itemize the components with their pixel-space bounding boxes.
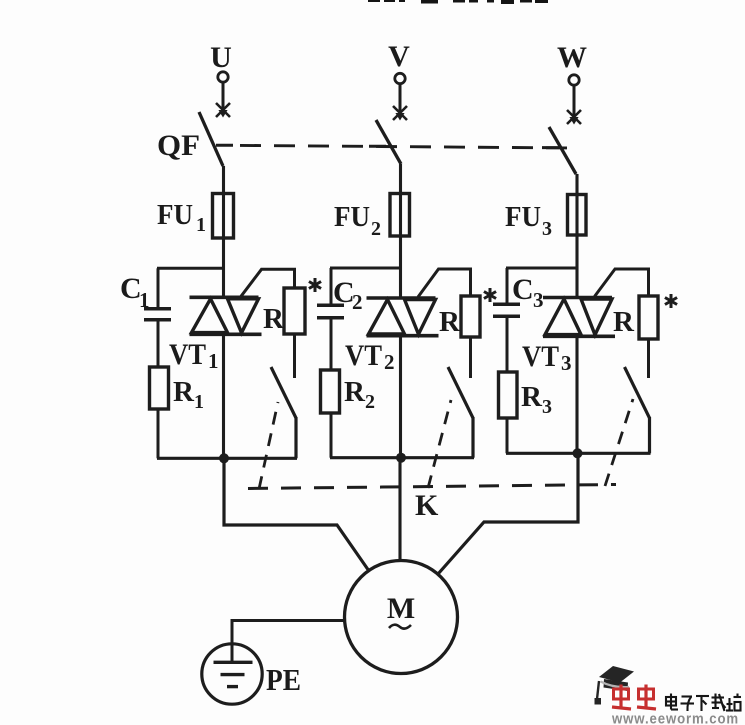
svg-text:1: 1 — [139, 288, 150, 312]
svg-text:FU: FU — [505, 201, 541, 233]
svg-text:FU: FU — [157, 199, 193, 231]
svg-text:2: 2 — [384, 350, 395, 374]
svg-text:3: 3 — [561, 351, 572, 375]
svg-text:FU: FU — [334, 201, 370, 233]
svg-text:R: R — [263, 303, 285, 335]
svg-text:2: 2 — [365, 391, 375, 413]
svg-text:VT: VT — [169, 338, 206, 371]
svg-text:3: 3 — [542, 218, 552, 240]
svg-text:www.eeworm.com: www.eeworm.com — [611, 711, 739, 725]
svg-text:QF: QF — [157, 129, 200, 162]
svg-text:3: 3 — [533, 288, 544, 312]
svg-text:U: U — [210, 41, 232, 74]
svg-text:M: M — [387, 592, 415, 625]
svg-text:K: K — [415, 489, 439, 522]
svg-text:R: R — [439, 306, 461, 338]
svg-text:VT: VT — [522, 340, 559, 373]
svg-text:R: R — [521, 381, 543, 413]
svg-text:1: 1 — [208, 349, 219, 373]
svg-text:R: R — [344, 376, 366, 408]
svg-text:1: 1 — [196, 214, 206, 236]
svg-text:PE: PE — [266, 662, 301, 697]
svg-text:V: V — [388, 40, 410, 73]
svg-text:R: R — [613, 306, 635, 338]
svg-text:W: W — [557, 41, 587, 74]
svg-text:C: C — [512, 273, 534, 306]
svg-text:VT: VT — [345, 339, 382, 372]
svg-text:2: 2 — [371, 218, 381, 240]
svg-text:R: R — [173, 376, 195, 408]
svg-text:1: 1 — [194, 391, 204, 413]
svg-text:3: 3 — [542, 396, 552, 418]
svg-text:2: 2 — [352, 290, 363, 314]
